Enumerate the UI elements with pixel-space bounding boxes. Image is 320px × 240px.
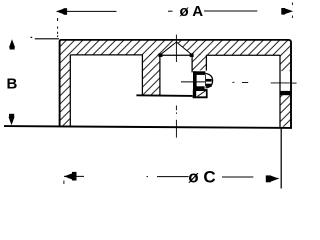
dim C line right [222,176,253,178]
hatched right side wall lower [280,95,291,127]
bore right wall upper [191,55,193,73]
dim C left arrow [64,175,84,177]
dim C left extension dash [63,181,65,185]
vertical centerline upper solid [175,35,177,62]
screw axis centerline left [181,81,205,83]
screw boss hatch diagonal [198,91,206,96]
screw boss box top edge [196,90,207,92]
left wall inner edge [69,55,71,126]
dim C line dot [147,176,149,178]
set screw body right edge [205,75,207,86]
svg-text:B: B [7,75,18,92]
vertical centerline dot [175,112,177,114]
set screw left bar [193,71,197,90]
svg-text:ø C: ø C [188,168,215,187]
bottom rim line with B bottom extension [4,126,292,128]
bore left wall [159,55,161,96]
right wall inner edge [279,55,281,127]
cone base line [160,54,193,56]
dim A line right [204,10,257,12]
svg-text:ø A: ø A [180,3,204,20]
cavity ceiling left [70,54,142,56]
vertical centerline lower dash [175,120,177,138]
dim A line middle dash [168,10,173,12]
outer outline right edge [289,40,292,128]
dim B down arrow [9,117,15,126]
dim B up arrow [9,39,15,47]
bore cone (drill point) white cutout [159,41,194,55]
screw axis through wall [271,82,290,84]
screw axis dot [232,81,234,83]
cavity ceiling right [206,54,280,56]
cone base corner blob left [159,53,163,57]
hatched hub right wall upper [192,54,207,70]
screw axis tick right of wall [292,82,297,84]
set screw head slot lower [206,84,212,87]
set screw top thread band [193,71,205,75]
hatched right side wall upper [280,55,291,71]
outer outline left edge [60,40,62,127]
hub left outer edge [141,55,143,96]
screw axis dash [242,82,248,84]
dim C line left [157,176,189,178]
dim A dashed extension left [57,18,59,37]
hatched left side wall [59,55,70,127]
screw boss right bar [206,91,208,97]
screw boss left bar [193,90,196,98]
vertical centerline dash [175,106,177,111]
set screw lower band under head [196,89,208,91]
outer top edge [61,39,289,41]
dim A dotted extension right [291,3,293,19]
cone base corner blob right [190,53,194,57]
set screw head bulge [206,74,213,88]
dim A left arrow [56,9,64,15]
cone outline [160,42,193,55]
dim B top extension line [35,38,59,40]
dim A line left [67,10,117,12]
screw boss bottom line [193,96,208,98]
dim B top extension dot [31,36,33,38]
hub bottom rim line [136,94,192,97]
hatched top wall band [59,40,292,55]
dim C right arrow [266,177,279,179]
hatched hub left wall [142,54,160,96]
dim C right extension line [280,128,282,189]
set screw bottom thread band [193,86,205,90]
dark band in right wall at screw hole bottom [280,91,292,95]
set screw head slot upper [206,79,212,82]
dim A right arrow [285,8,293,14]
hub right edge upper [205,55,207,70]
